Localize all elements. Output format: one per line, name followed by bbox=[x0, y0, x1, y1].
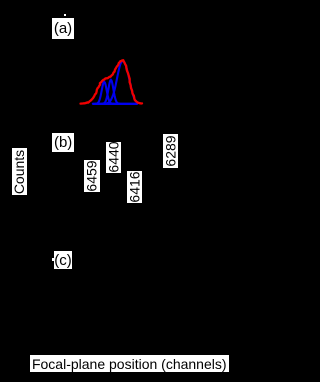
blue gaussian 1 bbox=[95, 82, 113, 104]
peak label 6459 bbox=[84, 160, 100, 192]
blue gaussian 3 bbox=[107, 61, 137, 103]
panel label (c) bbox=[54, 251, 72, 269]
panel label (a) bbox=[52, 18, 74, 39]
white dot above panel (a) label bbox=[64, 14, 66, 16]
peak label 6289 bbox=[163, 134, 178, 168]
curves panel (a): inline SVG bbox=[0, 0, 239, 382]
x-axis label bbox=[30, 355, 229, 372]
peak label 6440 bbox=[106, 142, 121, 173]
blue baseline bbox=[93, 103, 137, 105]
red envelope bbox=[81, 60, 143, 103]
y-axis label Counts bbox=[12, 148, 27, 195]
blue gaussian 2 bbox=[102, 80, 120, 104]
small white speck left of (c) bbox=[52, 258, 54, 261]
peak label 6416 bbox=[127, 171, 142, 203]
panel label (b) bbox=[52, 133, 74, 152]
